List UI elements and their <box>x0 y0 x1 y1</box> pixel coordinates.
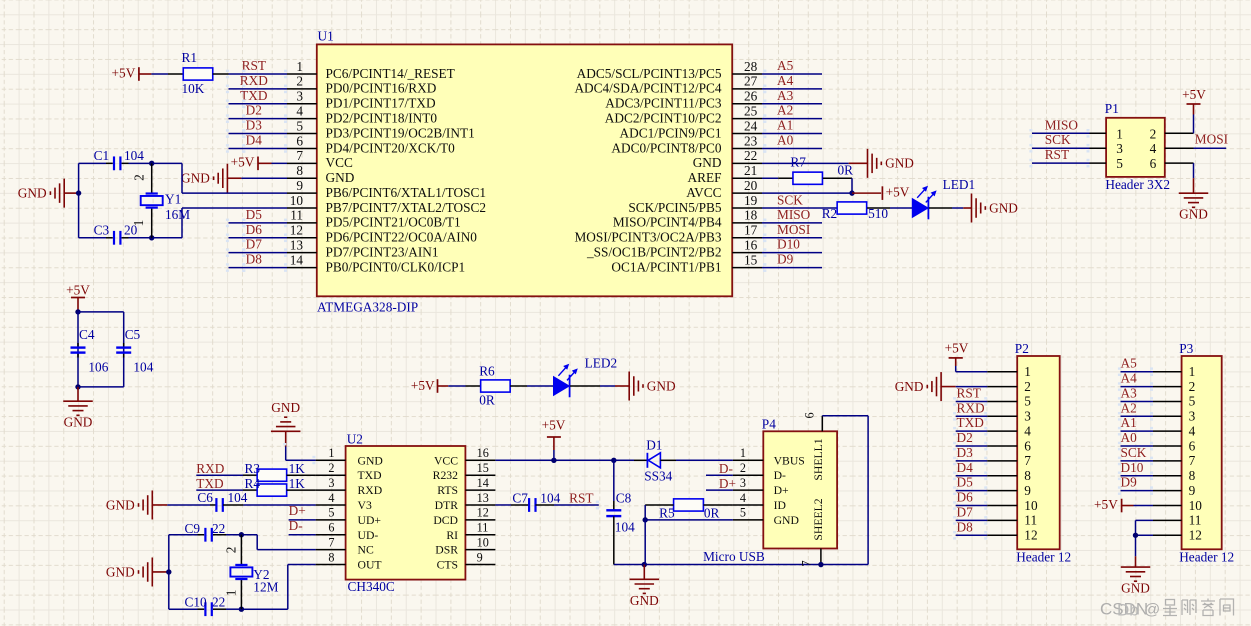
svg-text:A1: A1 <box>1121 415 1137 430</box>
svg-text:15: 15 <box>744 252 758 267</box>
svg-text:ADC4/SDA/PCINT12/PC4: ADC4/SDA/PCINT12/PC4 <box>574 81 721 96</box>
svg-text:D9: D9 <box>777 252 794 267</box>
svg-text:CH340C: CH340C <box>348 579 395 594</box>
svg-text:GND: GND <box>64 415 93 430</box>
svg-text:104: 104 <box>133 360 153 375</box>
svg-text:104: 104 <box>124 148 144 163</box>
svg-text:C1: C1 <box>94 148 110 163</box>
svg-text:RXD: RXD <box>358 484 383 497</box>
svg-text:27: 27 <box>744 74 758 89</box>
svg-text:D10: D10 <box>777 237 800 252</box>
svg-text:D7: D7 <box>246 237 263 252</box>
svg-text:8: 8 <box>1189 468 1196 483</box>
svg-text:GND: GND <box>885 156 914 171</box>
svg-text:D8: D8 <box>957 519 974 534</box>
svg-text:GND: GND <box>774 514 799 527</box>
svg-text:4: 4 <box>1150 141 1157 156</box>
svg-text:4: 4 <box>1024 423 1031 438</box>
svg-text:D-: D- <box>289 518 303 533</box>
svg-text:GND: GND <box>1121 581 1150 596</box>
svg-text:3: 3 <box>328 476 334 490</box>
svg-text:5: 5 <box>1189 394 1196 409</box>
svg-text:A2: A2 <box>1121 400 1137 415</box>
svg-text:GND: GND <box>989 200 1018 215</box>
svg-text:13: 13 <box>477 491 489 505</box>
svg-text:A0: A0 <box>1121 430 1138 445</box>
svg-text:6: 6 <box>1189 438 1196 453</box>
svg-text:R5: R5 <box>659 506 675 521</box>
svg-text:2: 2 <box>1150 126 1157 141</box>
svg-text:7: 7 <box>800 560 814 566</box>
svg-text:SS34: SS34 <box>644 469 672 484</box>
svg-text:24: 24 <box>744 118 758 133</box>
svg-text:RST: RST <box>1045 147 1069 162</box>
svg-text:OUT: OUT <box>358 559 382 572</box>
svg-text:SCK: SCK <box>1121 445 1147 460</box>
svg-text:D4: D4 <box>246 132 263 147</box>
svg-text:18: 18 <box>744 208 758 223</box>
svg-text:PB6/PCINT6/XTAL1/TOSC1: PB6/PCINT6/XTAL1/TOSC1 <box>326 185 487 200</box>
svg-text:1: 1 <box>740 446 746 460</box>
svg-text:GND: GND <box>895 379 924 394</box>
svg-text:DSR: DSR <box>435 544 458 557</box>
svg-text:22: 22 <box>744 148 757 163</box>
svg-text:7: 7 <box>1189 453 1196 468</box>
svg-text:VBUS: VBUS <box>774 454 805 467</box>
svg-text:2: 2 <box>296 74 303 89</box>
svg-text:22: 22 <box>212 521 225 536</box>
svg-text:D9: D9 <box>1121 475 1138 490</box>
svg-text:10: 10 <box>477 535 489 549</box>
svg-text:ID: ID <box>774 499 786 512</box>
svg-text:104: 104 <box>540 490 560 505</box>
svg-text:GND: GND <box>181 171 210 186</box>
svg-text:13: 13 <box>290 237 304 252</box>
svg-text:7: 7 <box>328 535 334 549</box>
svg-text:MOSI: MOSI <box>777 222 810 237</box>
svg-text:14: 14 <box>290 252 304 267</box>
svg-text:1: 1 <box>328 446 334 460</box>
svg-text:11: 11 <box>477 521 489 535</box>
svg-text:UD-: UD- <box>358 529 379 542</box>
svg-text:15: 15 <box>477 461 489 475</box>
svg-text:D10: D10 <box>1121 460 1144 475</box>
svg-text:ADC3/PCINT11/PC3: ADC3/PCINT11/PC3 <box>605 96 722 111</box>
svg-text:VCC: VCC <box>326 155 353 170</box>
svg-text:MISO: MISO <box>1045 117 1079 132</box>
svg-text:D2: D2 <box>246 103 262 118</box>
svg-text:PD4/PCINT20/XCK/T0: PD4/PCINT20/XCK/T0 <box>326 140 456 155</box>
svg-text:A4: A4 <box>1121 371 1138 386</box>
svg-text:10: 10 <box>1024 498 1038 513</box>
svg-text:8: 8 <box>328 550 334 564</box>
svg-text:PD6/PCINT22/OC0A/AIN0: PD6/PCINT22/OC0A/AIN0 <box>326 230 478 245</box>
svg-text:MISO/PCINT4/PB4: MISO/PCINT4/PB4 <box>613 215 722 230</box>
svg-text:1: 1 <box>296 59 303 74</box>
svg-text:SCK/PCIN5/PB5: SCK/PCIN5/PB5 <box>628 200 721 215</box>
svg-text:3: 3 <box>740 476 746 490</box>
svg-text:Header 12: Header 12 <box>1016 550 1071 565</box>
svg-text:3: 3 <box>1116 141 1123 156</box>
svg-text:D3: D3 <box>246 118 263 133</box>
svg-text:D1: D1 <box>646 437 662 452</box>
svg-text:1: 1 <box>223 590 238 597</box>
svg-text:PB7/PCINT7/XTAL2/TOSC2: PB7/PCINT7/XTAL2/TOSC2 <box>326 200 487 215</box>
svg-text:SCK: SCK <box>1045 132 1071 147</box>
svg-text:P2: P2 <box>1015 341 1029 356</box>
svg-text:OC1A/PCINT1/PB1: OC1A/PCINT1/PB1 <box>611 259 721 274</box>
svg-text:4: 4 <box>740 491 746 505</box>
svg-text:6: 6 <box>1024 438 1031 453</box>
svg-text:C7: C7 <box>512 490 528 505</box>
svg-text:5: 5 <box>1116 156 1123 171</box>
svg-text:2: 2 <box>1024 379 1031 394</box>
svg-text:D7: D7 <box>957 504 974 519</box>
svg-text:D+: D+ <box>774 484 789 497</box>
svg-text:RTS: RTS <box>437 484 458 497</box>
svg-text:RXD: RXD <box>196 461 224 476</box>
svg-text:17: 17 <box>744 223 758 238</box>
svg-text:A5: A5 <box>1121 356 1138 371</box>
svg-text:GND: GND <box>326 170 355 185</box>
svg-text:R1: R1 <box>182 50 198 65</box>
svg-text:A1: A1 <box>777 118 793 133</box>
svg-text:PD0/PCINT16/RXD: PD0/PCINT16/RXD <box>326 81 437 96</box>
svg-text:A2: A2 <box>777 103 793 118</box>
svg-text:2: 2 <box>740 461 746 475</box>
svg-text:26: 26 <box>744 89 758 104</box>
svg-text:7: 7 <box>1024 453 1031 468</box>
svg-text:5: 5 <box>740 506 746 520</box>
svg-text:GND: GND <box>18 185 47 200</box>
svg-text:+5V: +5V <box>1182 87 1206 102</box>
svg-text:8: 8 <box>296 163 303 178</box>
svg-text:0R: 0R <box>838 162 854 177</box>
svg-text:A3: A3 <box>1121 385 1138 400</box>
svg-text:6: 6 <box>1150 156 1157 171</box>
svg-text:SHELL1: SHELL1 <box>812 438 825 480</box>
svg-text:ADC1/PCIN9/PC1: ADC1/PCIN9/PC1 <box>620 125 722 140</box>
svg-text:16M: 16M <box>165 207 190 222</box>
svg-text:6: 6 <box>328 521 334 535</box>
svg-text:C10: C10 <box>185 595 208 610</box>
svg-text:10: 10 <box>1189 498 1203 513</box>
svg-text:12: 12 <box>1024 528 1037 543</box>
svg-text:GND: GND <box>647 378 676 393</box>
svg-text:AVCC: AVCC <box>686 185 721 200</box>
svg-text:LED2: LED2 <box>585 356 618 371</box>
svg-text:MOSI/PCINT3/OC2A/PB3: MOSI/PCINT3/OC2A/PB3 <box>574 230 721 245</box>
svg-text:C6: C6 <box>197 490 213 505</box>
svg-text:LED1: LED1 <box>943 177 976 192</box>
svg-text:GND: GND <box>630 593 659 608</box>
svg-text:2: 2 <box>131 174 146 181</box>
svg-text:MISO: MISO <box>777 207 811 222</box>
svg-text:10: 10 <box>290 193 304 208</box>
svg-text:14: 14 <box>477 476 489 490</box>
svg-text:9: 9 <box>296 178 303 193</box>
svg-text:21: 21 <box>744 163 757 178</box>
svg-text:1: 1 <box>1116 126 1123 141</box>
svg-text:P3: P3 <box>1179 341 1193 356</box>
svg-text:CTS: CTS <box>437 559 458 572</box>
svg-text:16: 16 <box>744 237 758 252</box>
svg-text:GND: GND <box>693 155 722 170</box>
svg-text:2: 2 <box>328 461 334 475</box>
svg-text:ADC2/PCINT10/PC2: ADC2/PCINT10/PC2 <box>605 110 722 125</box>
svg-text:D+: D+ <box>289 503 306 518</box>
svg-text:R4: R4 <box>245 476 261 491</box>
svg-text:SHEEL2: SHEEL2 <box>812 498 825 540</box>
svg-text:3: 3 <box>1189 409 1196 424</box>
svg-text:+5V: +5V <box>945 340 969 355</box>
svg-text:0R: 0R <box>704 506 720 521</box>
svg-text:9: 9 <box>1189 483 1196 498</box>
svg-text:1K: 1K <box>289 476 306 491</box>
svg-text:3: 3 <box>1024 409 1031 424</box>
svg-text:GND: GND <box>1179 207 1208 222</box>
svg-text:R2: R2 <box>822 206 838 221</box>
svg-text:D8: D8 <box>246 252 263 267</box>
svg-text:DCD: DCD <box>433 514 458 527</box>
svg-text:D-: D- <box>719 461 733 476</box>
svg-text:Y1: Y1 <box>165 192 181 207</box>
svg-text:_SS/OC1B/PCINT2/PB2: _SS/OC1B/PCINT2/PB2 <box>586 244 722 259</box>
svg-text:C8: C8 <box>616 490 632 505</box>
svg-text:RXD: RXD <box>957 400 985 415</box>
svg-text:4: 4 <box>296 103 303 118</box>
svg-text:SCK: SCK <box>777 193 803 208</box>
svg-text:1: 1 <box>1189 364 1196 379</box>
svg-text:ATMEGA328-DIP: ATMEGA328-DIP <box>317 300 418 315</box>
svg-text:PD1/PCINT17/TXD: PD1/PCINT17/TXD <box>326 96 436 111</box>
svg-text:+5V: +5V <box>1094 497 1118 512</box>
svg-text:@: @ <box>1144 602 1160 619</box>
svg-text:ADC5/SCL/PCINT13/PC5: ADC5/SCL/PCINT13/PC5 <box>577 66 722 81</box>
svg-text:C3: C3 <box>94 223 110 238</box>
svg-text:12: 12 <box>290 223 303 238</box>
svg-text:PD2/PCINT18/INT0: PD2/PCINT18/INT0 <box>326 110 438 125</box>
svg-text:4: 4 <box>328 491 334 505</box>
svg-text:D4: D4 <box>957 460 974 475</box>
svg-text:P4: P4 <box>762 417 776 432</box>
svg-text:PD5/PCINT21/OC0B/T1: PD5/PCINT21/OC0B/T1 <box>326 215 461 230</box>
svg-text:12: 12 <box>1189 528 1202 543</box>
svg-text:Header 3X2: Header 3X2 <box>1105 177 1170 192</box>
svg-text:28: 28 <box>744 59 758 74</box>
svg-text:P1: P1 <box>1105 101 1119 116</box>
svg-text:11: 11 <box>290 208 303 223</box>
svg-text:RI: RI <box>446 529 458 542</box>
svg-text:RST: RST <box>569 490 593 505</box>
svg-text:7: 7 <box>296 148 303 163</box>
svg-text:5: 5 <box>328 506 334 520</box>
svg-text:R6: R6 <box>479 363 495 378</box>
svg-text:NC: NC <box>358 544 374 557</box>
svg-text:GND: GND <box>106 497 135 512</box>
svg-text:5: 5 <box>1024 394 1031 409</box>
svg-text:GND: GND <box>271 400 300 415</box>
svg-text:106: 106 <box>88 360 108 375</box>
svg-text:U2: U2 <box>347 432 363 447</box>
svg-text:9: 9 <box>477 550 483 564</box>
svg-text:R232: R232 <box>433 469 458 482</box>
svg-text:+5V: +5V <box>231 155 255 170</box>
svg-text:+5V: +5V <box>542 418 566 433</box>
svg-text:Micro USB: Micro USB <box>703 549 765 564</box>
svg-text:UD+: UD+ <box>358 514 382 527</box>
svg-text:+5V: +5V <box>886 185 910 200</box>
svg-text:U1: U1 <box>318 29 334 44</box>
svg-text:D5: D5 <box>246 207 263 222</box>
svg-text:104: 104 <box>228 490 248 505</box>
svg-text:19: 19 <box>744 193 758 208</box>
svg-text:R3: R3 <box>245 461 261 476</box>
svg-text:TXD: TXD <box>358 469 382 482</box>
svg-text:TXD: TXD <box>957 415 985 430</box>
svg-text:16: 16 <box>477 446 489 460</box>
svg-text:PB0/PCINT0/CLK0/ICP1: PB0/PCINT0/CLK0/ICP1 <box>326 259 466 274</box>
svg-text:104: 104 <box>615 520 635 535</box>
svg-text:DTR: DTR <box>435 499 459 512</box>
svg-text:Db: Db <box>1117 601 1139 620</box>
svg-text:+5V: +5V <box>112 65 136 80</box>
svg-text:D+: D+ <box>719 476 736 491</box>
svg-text:D2: D2 <box>957 430 973 445</box>
svg-text:3: 3 <box>296 89 303 104</box>
svg-text:C4: C4 <box>79 327 95 342</box>
svg-text:C5: C5 <box>125 327 141 342</box>
svg-text:A3: A3 <box>777 88 794 103</box>
svg-text:1: 1 <box>1024 364 1031 379</box>
svg-text:10K: 10K <box>182 81 205 96</box>
svg-text:9: 9 <box>1024 483 1031 498</box>
svg-text:A0: A0 <box>777 132 794 147</box>
svg-text:1: 1 <box>131 220 146 227</box>
svg-text:2: 2 <box>224 547 239 554</box>
svg-text:4: 4 <box>1189 423 1196 438</box>
svg-text:6: 6 <box>803 412 817 418</box>
svg-text:VCC: VCC <box>434 454 458 467</box>
svg-text:PD7/PCINT23/AIN1: PD7/PCINT23/AIN1 <box>326 244 439 259</box>
svg-text:D5: D5 <box>957 475 974 490</box>
svg-text:RST: RST <box>957 385 981 400</box>
svg-text:12: 12 <box>477 506 489 520</box>
svg-text:V3: V3 <box>358 499 372 512</box>
svg-text:D6: D6 <box>246 222 263 237</box>
svg-text:5: 5 <box>296 118 303 133</box>
svg-text:MOSI: MOSI <box>1195 131 1228 146</box>
svg-text:ADC0/PCINT8/PC0: ADC0/PCINT8/PC0 <box>611 140 721 155</box>
svg-text:AREF: AREF <box>688 170 722 185</box>
svg-text:11: 11 <box>1024 513 1037 528</box>
svg-text:GND: GND <box>106 564 135 579</box>
svg-text:2: 2 <box>1189 379 1196 394</box>
svg-text:D-: D- <box>774 469 786 482</box>
svg-text:+5V: +5V <box>66 282 90 297</box>
svg-text:PC6/PCINT14/_RESET: PC6/PCINT14/_RESET <box>326 66 455 81</box>
svg-text:A4: A4 <box>777 73 794 88</box>
svg-text:A5: A5 <box>777 58 794 73</box>
svg-text:0R: 0R <box>479 393 495 408</box>
svg-text:GND: GND <box>358 454 383 467</box>
svg-text:TXD: TXD <box>196 476 224 491</box>
svg-text:6: 6 <box>296 133 303 148</box>
svg-text:PD3/PCINT19/OC2B/INT1: PD3/PCINT19/OC2B/INT1 <box>326 125 475 140</box>
svg-text:8: 8 <box>1024 468 1031 483</box>
svg-text:11: 11 <box>1189 513 1202 528</box>
svg-text:+5V: +5V <box>411 378 435 393</box>
svg-text:D6: D6 <box>957 490 974 505</box>
svg-text:12M: 12M <box>253 579 278 594</box>
svg-text:20: 20 <box>744 178 758 193</box>
svg-text:23: 23 <box>744 133 758 148</box>
svg-text:C9: C9 <box>185 521 201 536</box>
svg-text:Header 12: Header 12 <box>1179 550 1234 565</box>
svg-text:R7: R7 <box>790 155 806 170</box>
svg-text:25: 25 <box>744 103 758 118</box>
svg-text:1K: 1K <box>289 461 306 476</box>
svg-text:D3: D3 <box>957 445 974 460</box>
